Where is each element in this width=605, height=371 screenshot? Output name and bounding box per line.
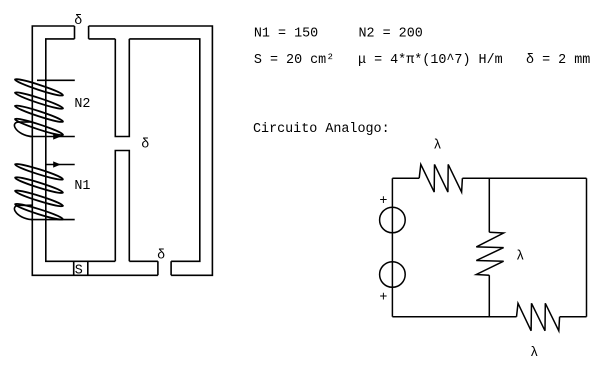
center leg lower piece — [115, 151, 129, 262]
wire bottom left — [392, 316, 516, 318]
wire bottom right — [560, 316, 587, 318]
label plus V2 — [379, 290, 387, 305]
svg-text:λ: λ — [530, 346, 538, 361]
svg-text:μ = 4*π*(10^7) H/m: μ = 4*π*(10^7) H/m — [358, 53, 503, 68]
label S — [75, 264, 83, 279]
coil N2 top lead — [37, 79, 75, 81]
label N1 = 150 — [254, 27, 318, 42]
coil N2 turns — [14, 77, 64, 137]
label N2 = 200 — [359, 27, 423, 42]
resistor R2 (middle, λ) — [476, 232, 503, 275]
svg-text:S: S — [75, 264, 83, 279]
wire middle branch lower — [488, 275, 490, 317]
svg-text:N1 = 150: N1 = 150 — [254, 27, 318, 42]
svg-text:δ: δ — [141, 138, 149, 153]
resistor R3 (bottom, λ) — [517, 303, 560, 331]
center leg upper piece — [115, 39, 129, 137]
source V2 — [380, 262, 406, 288]
coil N2 bottom curl — [14, 122, 32, 137]
label delta center gap — [141, 138, 149, 153]
svg-text:δ = 2 mm: δ = 2 mm — [526, 53, 590, 68]
coil N1 turns — [14, 162, 63, 222]
coil N1 top lead with arrow — [46, 161, 75, 167]
wire top left — [392, 177, 419, 179]
source V1 — [380, 207, 406, 233]
svg-text:N2 = 200: N2 = 200 — [359, 27, 423, 42]
label delta top gap — [74, 14, 82, 29]
air gap top (caps) — [75, 26, 89, 39]
svg-text:N1: N1 — [74, 179, 90, 194]
air gap bottom right (caps) — [158, 261, 171, 275]
svg-text:λ: λ — [434, 139, 442, 154]
label S = 20 cm2 — [254, 53, 334, 68]
label delta bottom gap — [157, 248, 165, 263]
svg-text:λ: λ — [516, 250, 524, 265]
wire top right — [462, 177, 586, 179]
svg-text:δ: δ — [74, 14, 82, 29]
coil N1 bottom curl — [14, 205, 32, 219]
label lambda R1 — [434, 139, 442, 154]
core inner edge — [46, 39, 200, 261]
label mu = 4*pi*(10^7) H/m — [358, 53, 503, 68]
coil N1 bottom lead — [31, 219, 75, 221]
svg-text:+: + — [379, 194, 387, 209]
svg-text:δ: δ — [157, 248, 165, 263]
coil N2 bottom lead with arrow — [30, 133, 75, 139]
label Circuito Analogo: — [253, 122, 390, 137]
wire left — [391, 178, 393, 317]
label N1 — [74, 179, 90, 194]
core outer edge — [32, 26, 212, 275]
svg-text:N2: N2 — [74, 97, 90, 112]
svg-text:Circuito Analogo:: Circuito Analogo: — [253, 122, 390, 137]
cross-section marker S ticks — [74, 261, 88, 275]
svg-text:S = 20 cm²: S = 20 cm² — [254, 53, 334, 68]
wire right — [586, 178, 588, 317]
label delta = 2 mm — [526, 53, 590, 68]
label lambda R2 — [516, 250, 524, 265]
label lambda R3 — [530, 346, 538, 361]
label N2 — [74, 97, 90, 112]
wire middle branch upper — [488, 178, 490, 232]
resistor R1 (top, λ) — [419, 164, 462, 192]
svg-text:+: + — [379, 290, 387, 305]
label plus V1 — [379, 194, 387, 209]
